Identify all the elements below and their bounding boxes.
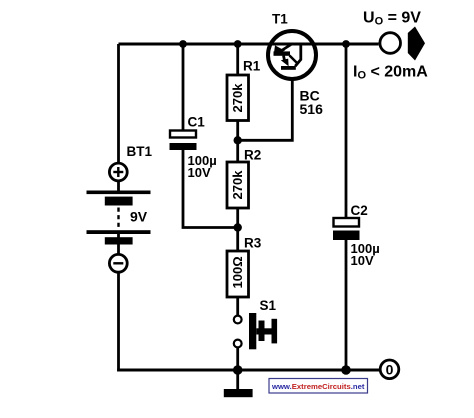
svg-text:10V: 10V: [188, 165, 211, 180]
svg-text:www.ExtremeCircuits.net: www.ExtremeCircuits.net: [271, 382, 365, 391]
switch S1 lower terminal: [234, 340, 242, 348]
wire C2 branch upper: [345, 44, 348, 221]
junction R2/R3/C1: [234, 223, 242, 231]
capacitor C1 bottom plate: [170, 143, 197, 150]
svg-text:R2: R2: [244, 148, 261, 163]
svg-text:270k: 270k: [230, 170, 245, 200]
wire C1 branch lower: [183, 147, 238, 228]
transistor T1 first base bar: [274, 51, 291, 55]
battery BT1 cell 2 long plate: [87, 230, 151, 234]
transistor T1 body circle: [268, 31, 316, 79]
switch S1 plunger cap: [272, 319, 278, 344]
transistor T1 inner emitter link: [284, 56, 285, 61]
wire C2 branch lower: [345, 237, 348, 372]
junction bottom rail / S1 / ground: [233, 365, 243, 375]
svg-text:10V: 10V: [351, 253, 374, 268]
battery BT1 dashed middle: [117, 208, 119, 230]
junction top rail / C1: [179, 40, 187, 48]
resistor R3: [227, 251, 249, 297]
svg-text:S1: S1: [260, 298, 277, 313]
svg-text:UO = 9V: UO = 9V: [363, 10, 421, 28]
svg-text:0: 0: [386, 361, 394, 377]
capacitor C1 top plate: [170, 131, 196, 138]
svg-text:C2: C2: [351, 203, 368, 218]
capacitor C2 top plate: [334, 218, 360, 227]
watermark box: [269, 379, 368, 394]
junction top rail / R1: [234, 40, 242, 48]
wire top rail (+9V): [119, 43, 379, 46]
switch S1 upper terminal: [234, 316, 242, 324]
resistor R2: [227, 162, 249, 208]
svg-text:516: 516: [300, 101, 324, 117]
svg-text:R1: R1: [243, 59, 261, 74]
capacitor C2 bottom plate: [333, 231, 360, 241]
transistor T1 second base bar: [281, 66, 296, 70]
switch S1 contact bar: [249, 313, 256, 349]
battery BT1 cell 1 short thick plate: [105, 197, 133, 206]
battery BT1 plus terminal: [109, 163, 127, 181]
transistor T1 collector diagonal from first bar: [290, 56, 297, 63]
switch S1 plunger inner bar: [259, 321, 265, 342]
battery BT1 minus terminal: [109, 254, 127, 272]
wire S1 to bottom rail: [236, 348, 239, 372]
output terminal 0 circle: [380, 360, 399, 379]
junction top rail / C2: [342, 40, 350, 48]
wire left battery branch upper: [117, 44, 120, 192]
output terminal Uo circle: [380, 33, 401, 54]
transistor T1 emitter arrowhead: [274, 45, 285, 54]
wire base of T1 to R1/R2 junction: [238, 69, 293, 140]
battery BT1 cell 1 long plate: [87, 191, 151, 195]
svg-text:100Ω: 100Ω: [230, 256, 245, 288]
wire left battery branch lower: [117, 234, 120, 372]
wire C1 branch upper: [182, 44, 185, 133]
wire bottom rail (0V): [117, 369, 379, 372]
resistor R1: [227, 75, 249, 121]
svg-text:270k: 270k: [230, 83, 245, 113]
output arrow icon: [408, 27, 425, 61]
transistor T1 collector lead: [295, 46, 301, 67]
transistor T1 emitter diagonal: [280, 45, 291, 52]
svg-text:T1: T1: [272, 12, 288, 27]
ground stub: [236, 370, 239, 389]
wire resistor column R1-R2-R3: [236, 44, 239, 316]
svg-text:C1: C1: [188, 115, 206, 130]
svg-text:9V: 9V: [130, 209, 148, 225]
ground bar: [224, 389, 253, 397]
junction R1/R2/base: [234, 136, 242, 144]
svg-text:BT1: BT1: [127, 144, 153, 159]
switch S1 plunger shaft: [256, 328, 272, 334]
wire rail through T1: [266, 43, 318, 46]
transistor T1 inner emitter arrowhead: [281, 59, 289, 67]
svg-text:R3: R3: [244, 236, 262, 251]
junction bottom rail / C2: [341, 365, 351, 375]
battery BT1 cell 2 short thick plate: [105, 237, 133, 244]
